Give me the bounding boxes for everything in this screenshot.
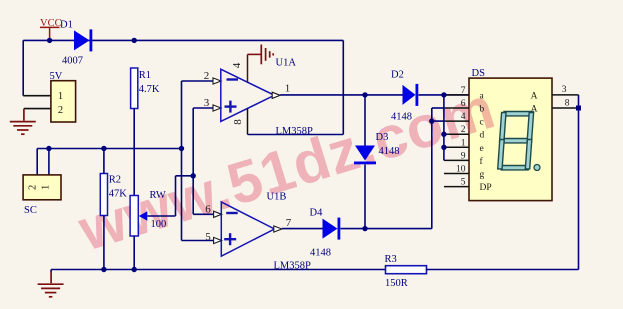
- svg-text:4148: 4148: [391, 112, 412, 123]
- svg-text:2: 2: [28, 185, 39, 190]
- svg-text:D2: D2: [391, 70, 404, 81]
- svg-text:5V: 5V: [50, 71, 63, 82]
- svg-text:1: 1: [285, 83, 291, 95]
- svg-text:4: 4: [231, 62, 243, 68]
- svg-text:100: 100: [151, 219, 167, 230]
- svg-text:7: 7: [461, 86, 466, 96]
- svg-text:D4: D4: [310, 208, 324, 219]
- svg-text:7: 7: [286, 217, 292, 229]
- svg-text:4007: 4007: [62, 56, 83, 67]
- svg-text:1: 1: [461, 138, 466, 148]
- svg-text:150R: 150R: [385, 278, 408, 289]
- svg-text:1: 1: [41, 185, 52, 190]
- svg-text:6: 6: [461, 99, 466, 109]
- svg-text:R1: R1: [139, 70, 151, 81]
- svg-text:DS: DS: [472, 68, 486, 79]
- svg-text:b: b: [480, 105, 485, 115]
- svg-text:4: 4: [461, 112, 466, 122]
- svg-text:4148: 4148: [310, 248, 331, 259]
- svg-text:10: 10: [456, 165, 466, 175]
- svg-text:LM358P: LM358P: [276, 126, 314, 137]
- svg-text:e: e: [480, 144, 484, 154]
- svg-text:A: A: [531, 91, 538, 101]
- svg-text:D1: D1: [60, 20, 73, 31]
- svg-text:8: 8: [565, 99, 570, 109]
- svg-text:SC: SC: [24, 205, 37, 216]
- svg-text:4.7K: 4.7K: [139, 84, 160, 95]
- svg-text:R3: R3: [385, 254, 397, 265]
- svg-text:d: d: [480, 131, 485, 141]
- svg-text:2: 2: [204, 70, 210, 82]
- svg-text:2: 2: [58, 105, 63, 116]
- svg-text:RW: RW: [150, 190, 166, 201]
- svg-text:5: 5: [205, 231, 211, 243]
- svg-text:1: 1: [58, 91, 63, 102]
- svg-text:R2: R2: [109, 175, 121, 186]
- svg-text:3: 3: [204, 97, 210, 109]
- svg-text:4148: 4148: [379, 146, 400, 157]
- svg-text:U1A: U1A: [276, 58, 297, 69]
- svg-text:U1B: U1B: [267, 192, 287, 203]
- svg-text:9: 9: [461, 151, 466, 161]
- svg-text:DP: DP: [480, 183, 492, 193]
- svg-text:47K: 47K: [109, 189, 128, 200]
- svg-text:g: g: [480, 170, 485, 180]
- svg-text:D3: D3: [376, 132, 389, 143]
- svg-text:c: c: [480, 118, 484, 128]
- svg-text:8: 8: [232, 119, 244, 125]
- svg-text:6: 6: [205, 203, 211, 215]
- svg-text:5: 5: [461, 178, 466, 188]
- svg-text:3: 3: [562, 85, 567, 95]
- svg-text:2: 2: [461, 125, 466, 135]
